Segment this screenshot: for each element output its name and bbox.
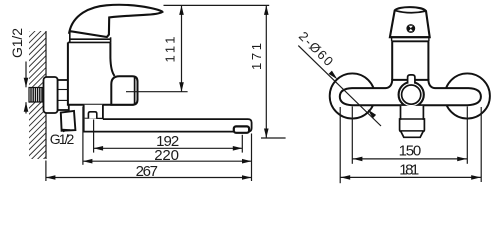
wall flange circle (left, Ø60): [330, 73, 375, 118]
leader 2-Ø60 (flange diameter callout): [296, 29, 381, 126]
dimension 192 (spout reach to aerator): [94, 120, 243, 153]
lever handle (front view): [390, 7, 430, 41]
neck below handle (front view): [392, 42, 428, 81]
union hex nut: [58, 80, 69, 110]
dimension 181 (overall width): [340, 107, 481, 183]
shower hose outlet (front view): [400, 106, 425, 137]
threaded wall nipple G1/2: [29, 88, 44, 103]
cartridge cap (front view): [399, 82, 424, 107]
svg-text:171: 171: [249, 43, 264, 70]
aerator at spout tip: [234, 126, 249, 132]
spout mounting block: [84, 105, 103, 119]
extension line (outlet bottom reference): [261, 137, 286, 139]
svg-text:150: 150: [399, 142, 422, 159]
collar ring under handle: [68, 33, 111, 42]
svg-text:220: 220: [154, 147, 179, 164]
dimension 171 (overall height): [249, 5, 269, 138]
spout tube (side view): [84, 119, 252, 132]
svg-text:G1/2: G1/2: [9, 28, 25, 58]
svg-text:181: 181: [399, 162, 419, 179]
body bar end cap (side view): [111, 76, 137, 105]
wall section (hatched): [29, 31, 46, 159]
escutcheon (wall cover plate): [44, 77, 58, 113]
dimension 111 (handle top to bar axis): [163, 5, 184, 91]
wall flange circle (right, Ø60): [445, 73, 490, 118]
extension line (bar axis reference): [126, 91, 188, 93]
svg-text:G1/2: G1/2: [50, 131, 75, 147]
dimension G1/2 (wall nipple thread): [9, 28, 29, 114]
svg-text:267: 267: [136, 163, 158, 180]
dimension 267 (wall to spout tip): [46, 161, 252, 182]
dimension 220 (body to spout tip): [83, 107, 252, 182]
body bar with union nuts (front view): [340, 80, 481, 105]
lever handle (side view): [69, 5, 162, 37]
swivel stop nub on spout: [88, 112, 96, 119]
faucet body (side view): [68, 42, 133, 104]
svg-text:111: 111: [163, 37, 178, 63]
extension line (handle top reference): [164, 4, 270, 6]
dimension 150 (flange centres): [352, 107, 467, 164]
shower hose outlet G1/2 (side view): [61, 111, 76, 132]
maker logo medallion on handle: [406, 24, 415, 33]
index tab above cartridge cap: [408, 75, 415, 84]
